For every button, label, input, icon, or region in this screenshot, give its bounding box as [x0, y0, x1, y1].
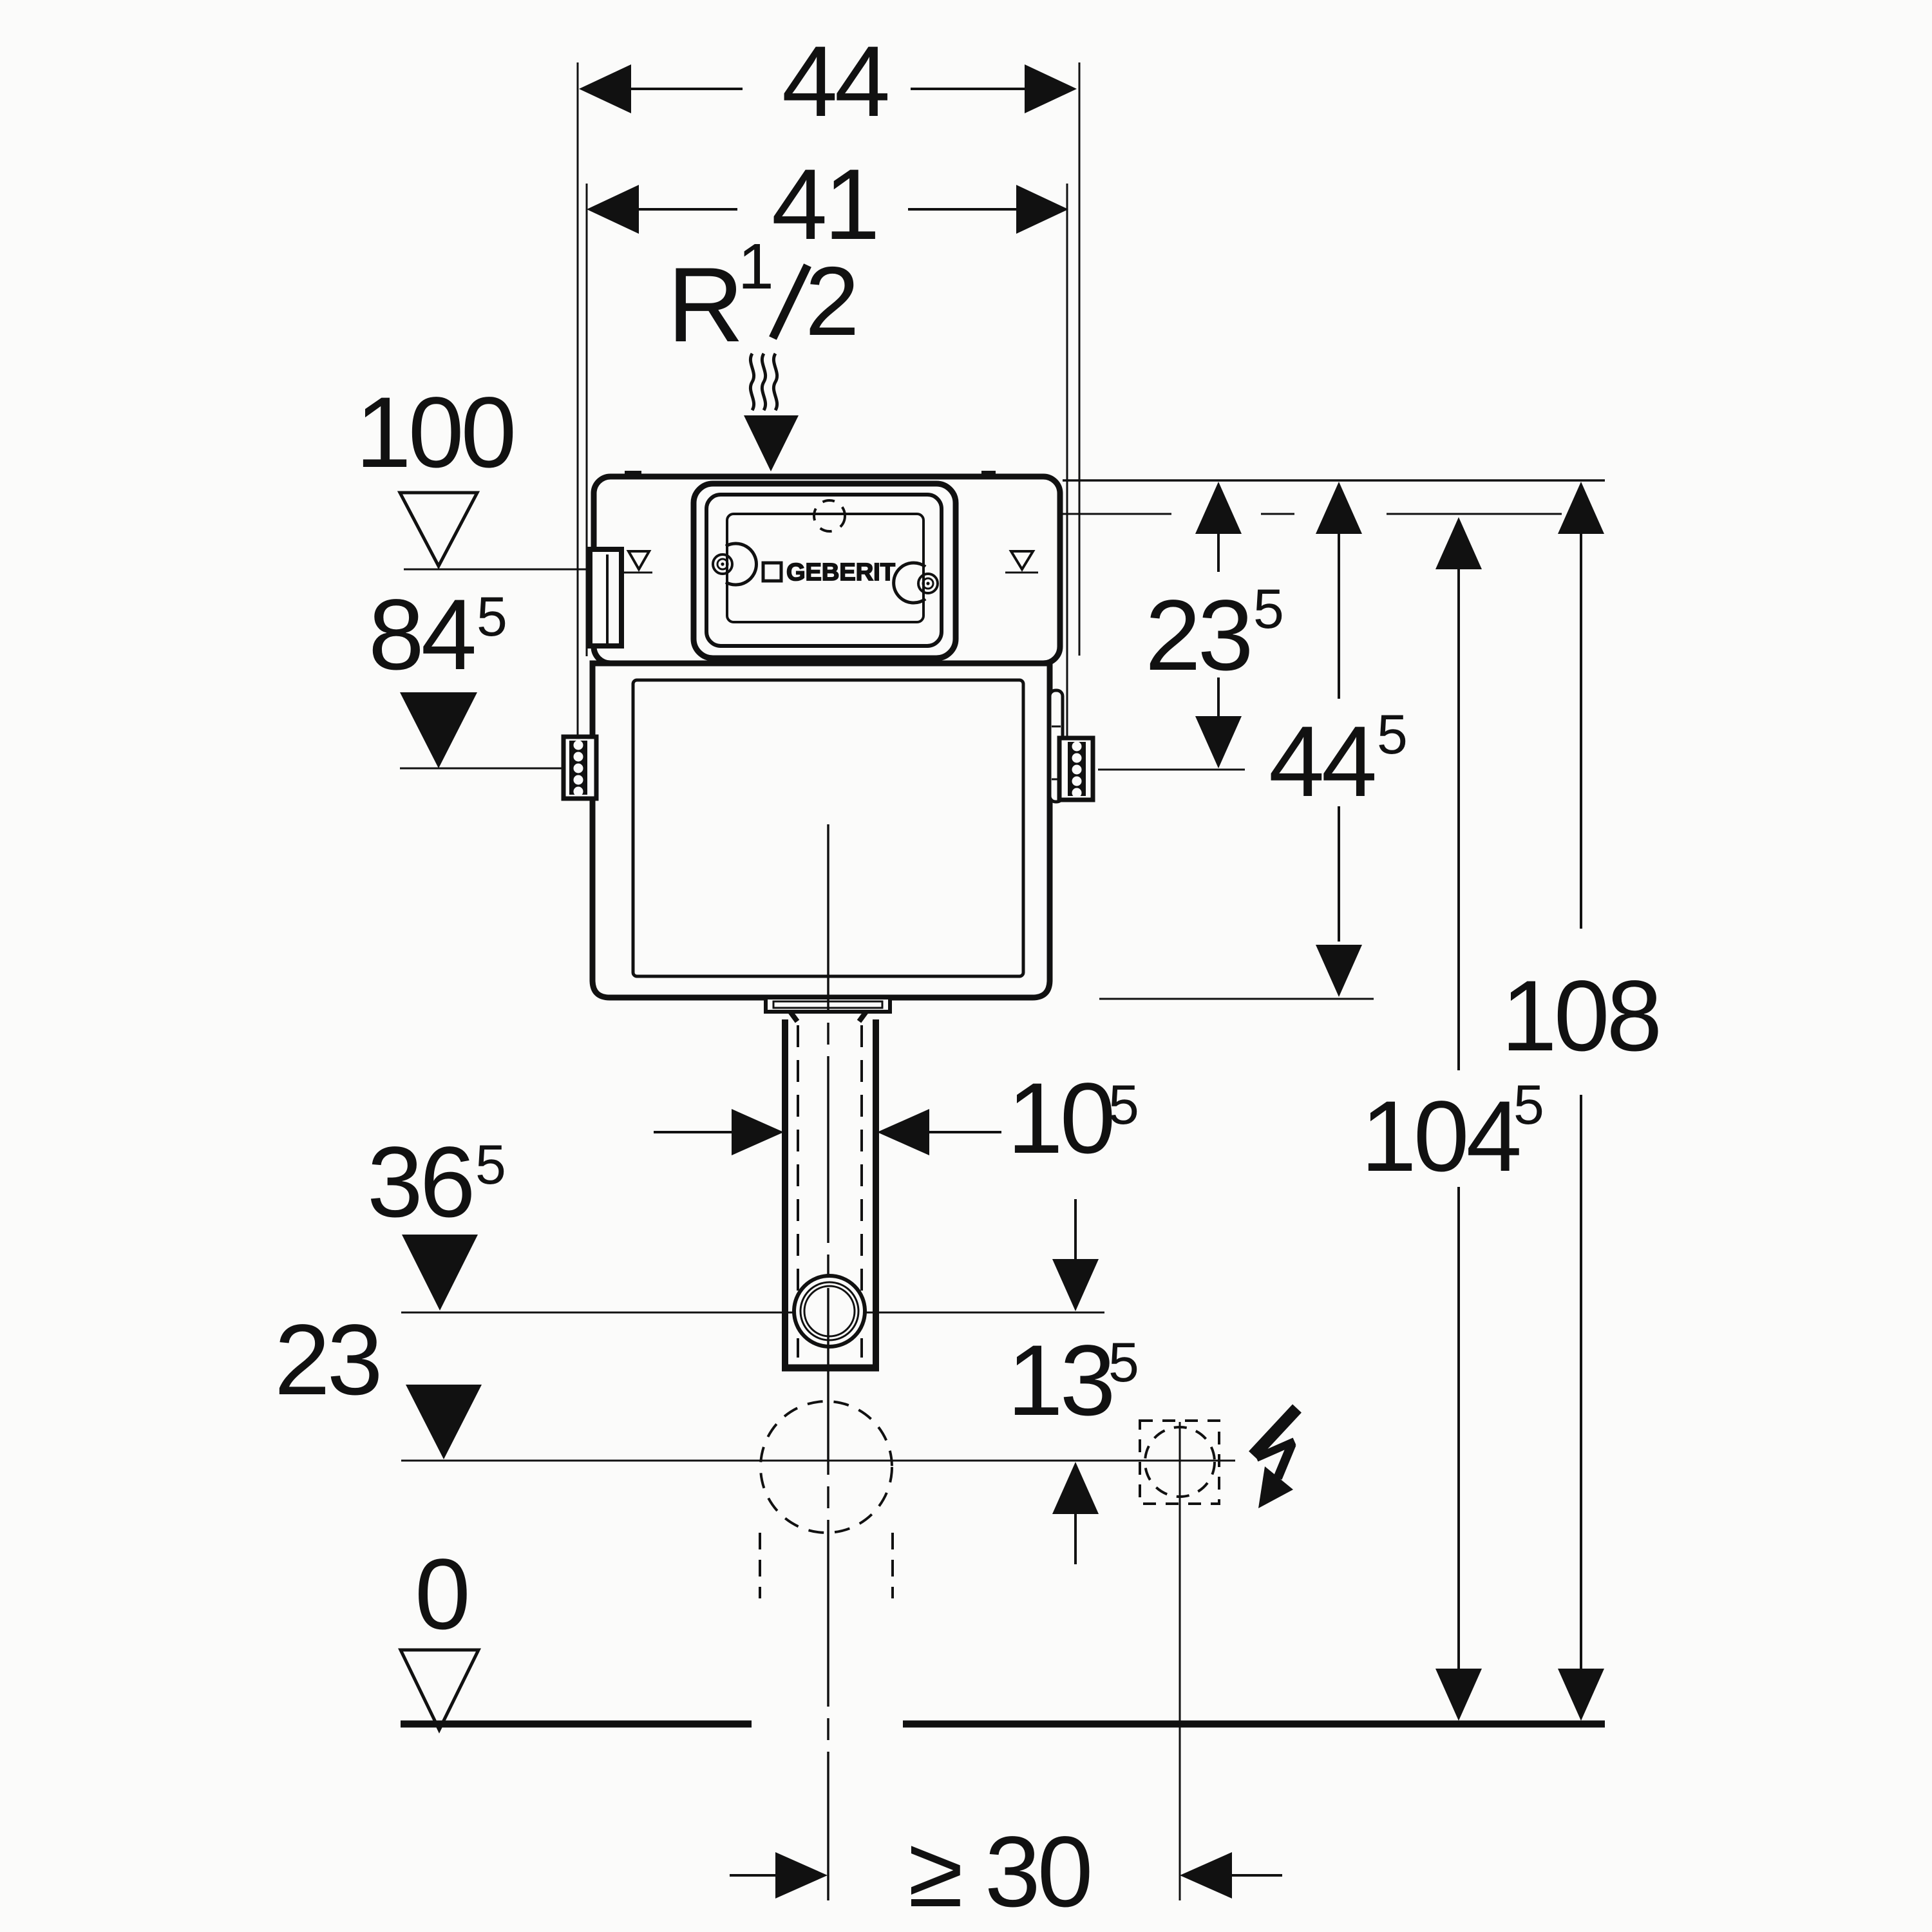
svg-text:84: 84 — [368, 579, 475, 691]
svg-text:≥ 30: ≥ 30 — [908, 1816, 1090, 1928]
svg-text:1: 1 — [738, 231, 774, 303]
ground line right — [903, 1721, 1605, 1728]
push button dashed circle — [814, 500, 845, 531]
svg-text:5: 5 — [477, 586, 507, 648]
dimension 44 arrowheads — [579, 64, 1077, 113]
flush bend flange — [766, 998, 890, 1012]
label R 1/2 — [667, 231, 860, 364]
svg-text:5: 5 — [1108, 1332, 1139, 1394]
svg-text:GEBERIT: GEBERIT — [786, 559, 895, 586]
lid bump right — [981, 471, 996, 478]
panel screw right — [918, 574, 938, 593]
water level line 100 — [404, 569, 592, 571]
water mark left line — [622, 572, 652, 574]
level line clip right — [1098, 769, 1245, 771]
dimension 23.5 — [1195, 482, 1242, 534]
dimension 44.5 — [1316, 482, 1362, 534]
svg-text:44: 44 — [782, 26, 888, 138]
label 13.5 — [1007, 1325, 1139, 1437]
level line 23 — [401, 1460, 1235, 1462]
level line 84.5 — [400, 768, 565, 770]
water mark left triangle — [629, 551, 649, 569]
fastening clip right — [1059, 738, 1093, 800]
extension line left 41 — [586, 184, 588, 656]
fastening clip left — [563, 737, 596, 799]
extension line right 44 — [1079, 62, 1081, 656]
label 10.5 — [1007, 1063, 1139, 1175]
panel screw left — [713, 554, 732, 574]
level triangle 84.5 filled — [400, 692, 477, 768]
dimension 41 arrowheads — [587, 185, 1068, 234]
ground line left — [401, 1721, 752, 1728]
drain dashed circle — [761, 1401, 892, 1533]
svg-text:R: R — [667, 245, 744, 364]
wall box vertical line — [1179, 1422, 1181, 1900]
water inflow squiggles — [750, 354, 753, 410]
level triangle 0 open — [401, 1650, 478, 1730]
wall box dashed circle — [1145, 1427, 1215, 1497]
flush pipe inner dashed right — [860, 1025, 863, 1358]
svg-text:100: 100 — [355, 377, 513, 489]
svg-text:13: 13 — [1007, 1325, 1113, 1437]
extension line right 41 — [1066, 184, 1068, 737]
reference line 44.5 bottom — [1099, 998, 1374, 1000]
level triangle 100 open — [400, 493, 477, 566]
level triangle 23 filled — [406, 1385, 482, 1459]
dimension 13.5 upper arrow — [1074, 1199, 1077, 1260]
tank body — [592, 663, 1050, 998]
flush pipe wall right — [873, 1019, 879, 1370]
flange slant left — [790, 1012, 797, 1021]
svg-text:5: 5 — [1513, 1074, 1544, 1136]
wall line in housing — [606, 554, 609, 643]
dimension 10.5 — [654, 1131, 734, 1133]
svg-text:5: 5 — [1108, 1074, 1139, 1136]
svg-text:108: 108 — [1501, 960, 1659, 1072]
tank inner wall — [633, 680, 1023, 976]
lid bump left — [625, 471, 641, 478]
svg-text:41: 41 — [772, 149, 877, 261]
centre line — [827, 824, 829, 1900]
water mark right triangle — [1011, 551, 1033, 569]
svg-text:5: 5 — [1377, 704, 1408, 766]
cistern lid outer body — [594, 477, 1060, 663]
drain dashed wall right — [891, 1533, 894, 1598]
svg-text:10: 10 — [1007, 1063, 1113, 1175]
side conduit right — [1050, 690, 1063, 802]
flush pipe bottom — [782, 1365, 879, 1372]
dimension 44 line — [628, 88, 1028, 90]
level triangle 36.5 filled — [402, 1235, 478, 1311]
water inflow arrowhead — [744, 415, 799, 471]
flush pipe wall left — [782, 1019, 788, 1370]
svg-text:2: 2 — [805, 247, 860, 356]
wall box dashed square — [1140, 1421, 1219, 1504]
label 84.5 — [368, 579, 507, 691]
svg-text:23: 23 — [274, 1304, 380, 1416]
drain dashed wall left — [759, 1533, 761, 1598]
second reference line right — [1060, 513, 1171, 515]
svg-text:44: 44 — [1269, 706, 1375, 818]
flush pipe inner dashed left — [797, 1025, 799, 1358]
panel cutout left — [726, 544, 756, 585]
access panel inner plate — [727, 514, 923, 622]
svg-text:5: 5 — [475, 1134, 506, 1196]
water mark right line — [1005, 572, 1038, 574]
access panel mid frame — [706, 495, 942, 646]
svg-text:0: 0 — [415, 1539, 468, 1651]
top reference line right — [1063, 479, 1605, 482]
filling valve housing — [590, 549, 621, 646]
dimension 13.5 lower arrow — [1052, 1462, 1099, 1514]
outlet circle — [794, 1276, 865, 1347]
level line 36.5 — [401, 1312, 1104, 1314]
dimension greater equal 30 — [730, 1874, 781, 1877]
extension line left 44 — [577, 62, 579, 737]
svg-text:104: 104 — [1361, 1081, 1520, 1193]
svg-text:36: 36 — [367, 1126, 473, 1238]
panel cutout right — [894, 563, 925, 603]
lightning bolt — [1253, 1408, 1297, 1478]
label 36.5 — [367, 1126, 506, 1238]
access panel outer frame — [694, 484, 956, 658]
geberit logo square — [763, 563, 781, 581]
dimension 108 — [1558, 482, 1604, 534]
svg-text:23: 23 — [1145, 580, 1251, 692]
svg-text:5: 5 — [1253, 578, 1284, 640]
flange slant right — [859, 1012, 866, 1021]
dimension 104.5 — [1435, 517, 1482, 569]
dimension 41 line — [636, 208, 1019, 211]
